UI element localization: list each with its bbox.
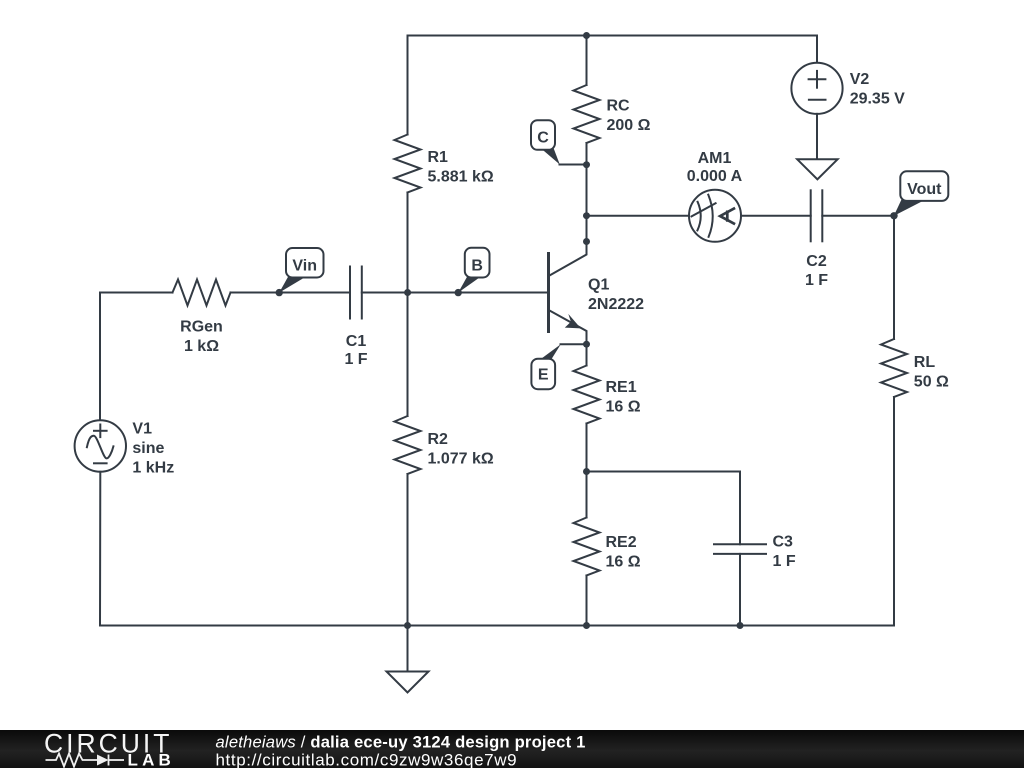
value label R1 — [428, 149, 494, 186]
voltage source V1 sine — [75, 420, 126, 471]
wire C1 to base — [362, 292, 547, 294]
wire RE1 to RE2 — [586, 424, 588, 518]
ground (V2) — [797, 159, 837, 179]
value label V1 — [132, 420, 174, 476]
svg-text:1 F: 1 F — [805, 272, 828, 289]
value label R2 — [428, 431, 494, 468]
node dot C3 bottom — [737, 622, 744, 629]
ammeter AM1 letter A — [720, 209, 734, 224]
wire V1 bottom lead — [99, 472, 101, 626]
node dot emitter — [583, 341, 590, 348]
wire V2 bottom lead — [816, 114, 818, 159]
value label Q1 — [588, 277, 644, 314]
svg-text:E: E — [538, 367, 549, 384]
svg-text:C3: C3 — [773, 534, 794, 551]
resistor RGen — [173, 280, 231, 306]
node dot C1/R divider — [404, 289, 411, 296]
wire emitter to RE1 — [586, 344, 588, 365]
footer url text — [216, 751, 518, 768]
node dot Vout — [890, 212, 897, 219]
svg-text:Vout: Vout — [907, 181, 942, 198]
node dot RE1/RE2/C3 — [583, 468, 590, 475]
wire RL top lead — [893, 216, 895, 339]
transistor Q1 emitter lead with arrow — [550, 311, 587, 345]
value label RL — [914, 354, 949, 391]
transistor Q1 collector lead — [550, 242, 587, 276]
wire node C tag lead — [560, 164, 587, 166]
wire R1 bottom lead — [407, 193, 409, 293]
svg-text:16 Ω: 16 Ω — [606, 554, 641, 571]
svg-text:5.881 kΩ: 5.881 kΩ — [428, 169, 494, 186]
value label AM1 — [687, 150, 743, 185]
footer logo squiggle — [46, 754, 125, 767]
node dot ground rail — [404, 622, 411, 629]
svg-text:1 F: 1 F — [344, 351, 367, 368]
svg-text:C1: C1 — [346, 333, 367, 350]
svg-text:1.077 kΩ: 1.077 kΩ — [428, 450, 494, 467]
value label RE2 — [606, 534, 641, 571]
node dot C tag — [583, 161, 590, 168]
node label Vin — [279, 248, 323, 293]
node dot RC top — [583, 32, 590, 39]
wire RC bottom to collector node — [586, 143, 588, 242]
ground (main) — [387, 672, 429, 693]
svg-text:R1: R1 — [428, 149, 449, 166]
svg-text:V1: V1 — [132, 420, 152, 437]
svg-text:0.000 A: 0.000 A — [687, 168, 743, 185]
wire collector horizontal to ammeter — [587, 215, 690, 217]
svg-text:1 kHz: 1 kHz — [132, 459, 174, 476]
svg-text:29.35 V: 29.35 V — [850, 91, 905, 108]
svg-text:RE1: RE1 — [606, 379, 637, 396]
value label RC — [607, 97, 651, 133]
svg-text:C: C — [537, 130, 549, 147]
node label E — [531, 344, 560, 389]
wire RGen to C1 — [231, 292, 351, 294]
svg-text:B: B — [471, 257, 483, 274]
value label C2 — [805, 253, 828, 289]
wire node E tag lead — [561, 343, 587, 345]
node dot collector/ammeter — [583, 212, 590, 219]
svg-text:RGen: RGen — [180, 318, 223, 335]
svg-text:200 Ω: 200 Ω — [607, 117, 651, 134]
resistor RL — [881, 339, 907, 397]
svg-text:RC: RC — [607, 97, 631, 114]
wire V2 top lead — [816, 36, 818, 63]
wire bottom rail — [100, 625, 894, 627]
footer title text — [216, 733, 586, 752]
footer logo CIRCUIT — [44, 729, 172, 759]
capacitor C1 — [350, 267, 362, 319]
svg-text:C2: C2 — [806, 253, 827, 270]
svg-text:1 kΩ: 1 kΩ — [184, 338, 219, 355]
wire left input column top — [99, 293, 101, 421]
node dot Vin — [276, 289, 283, 296]
wire C3 bottom lead — [739, 554, 741, 626]
wire top rail — [408, 35, 818, 37]
wire R2 top lead — [407, 293, 409, 417]
svg-text:sine: sine — [132, 440, 164, 457]
wire C3 branch top — [587, 472, 741, 545]
capacitor C3 — [714, 544, 766, 554]
resistor R1 — [395, 135, 421, 193]
wire R1 top lead — [407, 36, 409, 135]
capacitor C2 — [811, 190, 823, 241]
svg-text:16 Ω: 16 Ω — [606, 399, 641, 416]
ammeter AM1 — [689, 190, 741, 242]
svg-text:Vin: Vin — [292, 258, 317, 275]
node dot collector terminal — [583, 238, 590, 245]
svg-text:LAB: LAB — [128, 751, 176, 768]
svg-text:R2: R2 — [428, 431, 449, 448]
footer bar — [0, 730, 1024, 768]
value label RGen — [180, 318, 223, 355]
wire RC top lead — [586, 36, 588, 86]
node label C — [531, 120, 560, 164]
wire ground lead — [407, 626, 409, 672]
transistor Q1 bar — [547, 254, 550, 332]
wire input to RGen — [100, 292, 173, 294]
wire C2 to Vout node — [822, 215, 894, 217]
resistor RE1 — [574, 366, 600, 424]
svg-text:aletheiaws / dalia ece-uy 3124: aletheiaws / dalia ece-uy 3124 design pr… — [216, 733, 586, 752]
node label Vout — [894, 171, 949, 216]
svg-text:Q1: Q1 — [588, 277, 609, 294]
svg-text:2N2222: 2N2222 — [588, 296, 644, 313]
value label V2 — [850, 71, 905, 108]
resistor RC — [574, 85, 600, 143]
voltage source V2 — [791, 63, 842, 114]
footer logo LAB — [128, 751, 176, 768]
svg-text:AM1: AM1 — [698, 150, 732, 167]
wire R2 bottom lead — [407, 474, 409, 626]
svg-text:http://circuitlab.com/c9zw9w36: http://circuitlab.com/c9zw9w36qe7w9 — [216, 751, 518, 768]
wire RE2 bottom lead — [586, 576, 588, 626]
svg-text:50 Ω: 50 Ω — [914, 374, 949, 391]
node dot RE2 bottom — [583, 622, 590, 629]
resistor R2 — [395, 416, 421, 474]
value label C3 — [773, 534, 796, 571]
svg-text:1 F: 1 F — [773, 553, 796, 570]
node label B — [458, 248, 489, 293]
wire RL bottom lead — [893, 397, 895, 626]
node dot B tag — [455, 289, 462, 296]
resistor RE2 — [574, 518, 600, 576]
wire ammeter to C2 — [741, 215, 811, 217]
value label C1 — [344, 333, 367, 368]
svg-text:RE2: RE2 — [606, 534, 637, 551]
svg-text:RL: RL — [914, 354, 936, 371]
svg-text:V2: V2 — [850, 71, 870, 88]
value label RE1 — [606, 379, 641, 416]
